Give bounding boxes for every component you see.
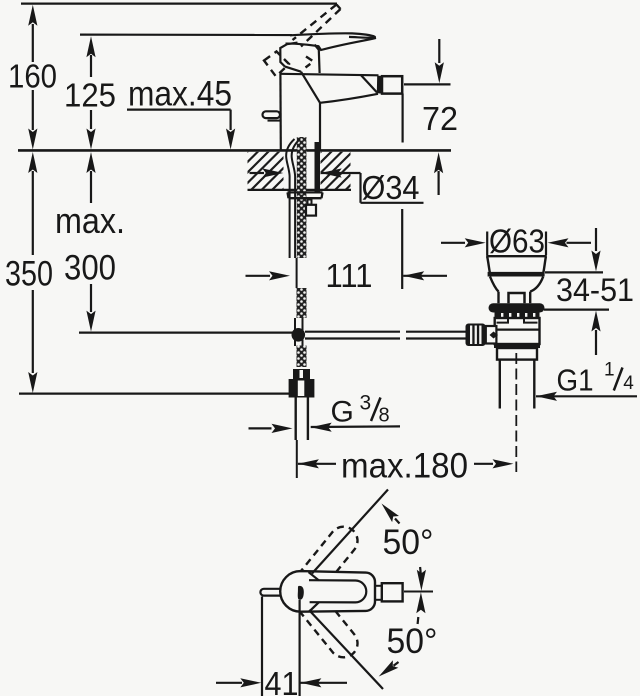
braided hose mid block xyxy=(297,288,307,318)
lock nut xyxy=(497,348,537,360)
dashed cap outline (rotated) xyxy=(264,52,289,77)
svg-text:300: 300 xyxy=(64,249,116,288)
dimension G3/8 xyxy=(249,423,401,433)
svg-text:125: 125 xyxy=(64,77,116,114)
cone sides xyxy=(490,277,499,292)
lower dashed handle (rotated 50) xyxy=(300,611,358,657)
dimension 160: vertical line x=32.8 xyxy=(28,5,37,150)
braided hose upper run xyxy=(297,137,307,258)
braided hose lower block xyxy=(297,346,307,368)
angle valve body xyxy=(289,379,315,398)
wire: counter top line xyxy=(18,149,451,152)
knob connector box xyxy=(486,326,497,344)
black supply stub right xyxy=(315,142,321,192)
svg-text:max.180: max.180 xyxy=(341,447,468,486)
body side slots xyxy=(497,318,509,322)
bowden cable (double line) xyxy=(305,331,400,333)
rod clamp nub xyxy=(308,200,312,205)
lower 50-degree swing line xyxy=(309,610,383,689)
dimension max.180 xyxy=(298,459,514,468)
lever blade inner line xyxy=(349,36,375,39)
svg-text:72: 72 xyxy=(422,100,458,137)
wire: 350 bottom terminator line xyxy=(19,393,291,395)
dimension 41 xyxy=(216,597,347,696)
seal flange band (black stadium) xyxy=(489,303,545,312)
dimension max.300: vertical line x=91 below counter xyxy=(79,152,293,333)
upper 50-degree swing line xyxy=(312,490,388,574)
wire: counter bottom line xyxy=(248,189,352,191)
svg-text:4: 4 xyxy=(623,373,634,394)
spout shoulder lines (top view) xyxy=(309,572,319,580)
dimension max.45: shelf + down arrow xyxy=(127,110,235,150)
faucet base right edge xyxy=(319,103,321,150)
pop-up rod below counter (two curved lines) xyxy=(286,139,294,258)
lever mark (black blob in circle) xyxy=(298,586,304,600)
dimension O63 xyxy=(441,232,591,256)
wire: aerator outlet level line xyxy=(404,83,451,85)
counter hatch left block xyxy=(248,152,284,189)
G3/8 supply pipe xyxy=(295,398,297,441)
dimension 125: vertical line x=91 xyxy=(86,36,95,149)
knurled knob xyxy=(466,324,486,347)
svg-text:50°: 50° xyxy=(387,622,438,661)
swing bow-tie arrows xyxy=(416,567,426,624)
upper 50 leader arrow xyxy=(378,500,399,523)
tailpipe centerline (dashed) xyxy=(515,353,517,472)
svg-text:Ø63: Ø63 xyxy=(489,223,545,260)
svg-text:max.: max. xyxy=(55,200,125,241)
svg-text:G1: G1 xyxy=(557,363,594,398)
dimension 34-51 xyxy=(544,228,609,355)
svg-text:160: 160 xyxy=(8,58,57,95)
wire: max.300 bottom terminator line xyxy=(79,332,293,334)
extension line to max.180 xyxy=(296,440,298,478)
faucet base column left edge xyxy=(279,74,282,151)
cartridge cap outline xyxy=(280,43,319,73)
pop-up rod (top view) xyxy=(260,589,281,596)
top-view faucet outer stadium xyxy=(280,571,375,612)
wire: solid-lever top extension line xyxy=(80,33,292,36)
lift pin box xyxy=(509,293,525,303)
svg-text:50°: 50° xyxy=(383,523,434,562)
dashed cap right chevron xyxy=(306,57,314,68)
cup sides xyxy=(487,257,490,273)
aerator neck lines xyxy=(375,585,382,587)
aerator (top view) xyxy=(382,583,403,601)
svg-text:350: 350 xyxy=(5,255,53,294)
body mid line xyxy=(495,329,540,331)
aerator separator band (dark) xyxy=(377,76,382,94)
dimension 72: vertical line x=439 xyxy=(404,39,451,195)
aerator centerline xyxy=(404,591,433,593)
svg-text:8: 8 xyxy=(379,405,390,427)
svg-text:3: 3 xyxy=(360,392,372,415)
junction node (tee) xyxy=(292,328,306,342)
neck xyxy=(497,292,499,304)
angle valve top nut xyxy=(293,369,310,379)
counter hatch right block xyxy=(321,152,351,189)
set screw diamond xyxy=(490,332,499,339)
wire: top extension line (tilted-lever tip level) xyxy=(21,2,337,4)
faucet top edge xyxy=(281,74,379,76)
dashed lever (raised position) xyxy=(264,5,341,77)
body bottom band xyxy=(494,344,540,348)
top-view spout inner contour xyxy=(309,580,366,602)
fraction slashes xyxy=(371,368,623,422)
spout underside xyxy=(320,94,378,103)
thread row xyxy=(495,313,540,319)
svg-text:34-51: 34-51 xyxy=(556,272,634,308)
svg-text:Ø34: Ø34 xyxy=(362,169,420,206)
svg-text:G: G xyxy=(331,396,354,429)
lever handle (solid) xyxy=(286,33,376,50)
svg-text:111: 111 xyxy=(326,257,373,294)
dimension 111 xyxy=(246,271,448,280)
dimension G1 1/4 leader xyxy=(536,392,637,401)
lower 50 leader arrow xyxy=(376,660,399,680)
body diagonal (cap base to spout underside) xyxy=(301,72,320,103)
hose break thin line xyxy=(296,258,298,288)
dimension O34: arrows at counter hole xyxy=(250,168,424,202)
pop-up rod knob on body left xyxy=(263,111,281,118)
tailpipe xyxy=(499,360,501,409)
svg-text:1: 1 xyxy=(604,360,615,381)
svg-text:max.45: max.45 xyxy=(128,75,232,114)
thin connector lines at junction xyxy=(294,318,296,346)
mounting flange / locknut xyxy=(288,192,323,198)
spout end diagonal xyxy=(361,75,378,93)
waste body xyxy=(495,318,540,344)
waste cup top xyxy=(486,255,547,257)
cup bottom rim (dark) xyxy=(488,272,545,277)
upper dashed handle (rotated 50) xyxy=(301,527,358,572)
aerator block xyxy=(382,76,402,93)
dimension 350: vertical line x=32.8 below counter xyxy=(19,152,291,394)
rod clamp box xyxy=(306,205,316,216)
wire: extension line from aerator right edge xyxy=(402,94,404,143)
svg-text:41: 41 xyxy=(265,665,299,696)
